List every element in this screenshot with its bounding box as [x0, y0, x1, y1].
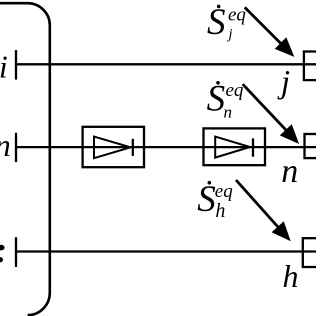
wire bus i (top horizontal line) — [16, 63, 316, 65]
arrow S_n injection — [243, 84, 299, 144]
diode triangle D2 — [215, 137, 250, 158]
svg-text:S: S — [207, 2, 226, 43]
arrow S_h injection — [236, 180, 291, 241]
label S_n^eq — [207, 78, 244, 121]
load square j (cut by right edge) — [304, 52, 320, 81]
node n bus tick — [15, 133, 17, 162]
label S_h^eq — [197, 179, 233, 222]
svg-text:i: i — [0, 48, 8, 84]
svg-text:n: n — [224, 102, 233, 121]
node i bus tick — [15, 50, 17, 80]
svg-text:n: n — [281, 153, 298, 190]
node label g (left, cut off at edge) — [0, 245, 5, 251]
diode cathode bar D1 — [132, 139, 134, 156]
valve box D1 — [83, 127, 144, 167]
valve box D2 — [204, 128, 266, 165]
wire bus n (middle horizontal line) — [16, 146, 316, 148]
svg-text:S: S — [197, 179, 216, 220]
arrow S_j injection — [245, 7, 294, 57]
diode triangle D1 — [94, 137, 131, 159]
node g bus tick — [15, 237, 17, 267]
svg-text:n: n — [0, 127, 11, 163]
diode cathode bar D2 — [252, 138, 254, 156]
svg-text:S: S — [207, 78, 226, 119]
svg-text:eq: eq — [228, 5, 246, 26]
load square h (cut by right edge) — [303, 238, 320, 267]
svg-text:eq: eq — [226, 80, 244, 101]
svg-text:j: j — [226, 26, 232, 42]
network boundary bracket (rounded corner shape, cut off at left edge) — [0, 3, 50, 315]
label S_j^eq — [207, 2, 246, 43]
load square n (cut by right edge) — [305, 134, 320, 158]
svg-text:j: j — [277, 65, 290, 101]
svg-text:h: h — [283, 258, 299, 294]
svg-text:eq: eq — [215, 181, 233, 202]
svg-text:h: h — [215, 200, 225, 222]
wire bus g (bottom horizontal line) — [16, 250, 316, 252]
